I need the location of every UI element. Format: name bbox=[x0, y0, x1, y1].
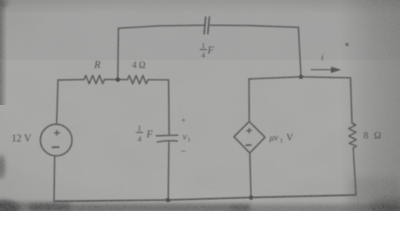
capacitor C1 right plate bbox=[208, 17, 210, 34]
wire between R and 4ohm resistor bbox=[105, 79, 128, 81]
wire from 4 ohm to middle-capacitor corner bbox=[148, 79, 169, 81]
top wire left of capacitor C1 bbox=[118, 25, 204, 28]
dependent source U1 (mu v1 V) diamond bbox=[234, 122, 265, 154]
wire 8 ohm branch lower bbox=[353, 148, 356, 195]
voltage source V1 minus sign bbox=[52, 146, 60, 148]
wire left branch lower bbox=[53, 156, 56, 201]
junction node C (middle cap meets bottom wire) bbox=[166, 198, 170, 202]
dependent source U1 minus sign bbox=[246, 144, 252, 146]
wire 8 ohm branch upper bbox=[351, 78, 353, 123]
resistor R3 (8 ohm) bbox=[349, 123, 357, 148]
bottom wire bbox=[54, 195, 356, 201]
wire vertical branch up from junction A bbox=[117, 28, 120, 79]
current arrow i shaft bbox=[312, 69, 333, 71]
capacitor C2 (1/4 F middle) top plate bbox=[156, 134, 178, 137]
current arrow i head bbox=[331, 67, 341, 73]
resistor R2 (4 ohm) bbox=[128, 76, 149, 84]
capacitor C2 bottom plate bbox=[157, 141, 177, 142]
junction node A (R / 4ohm / up-branch) bbox=[116, 78, 120, 82]
capacitor C1 (1/4 F top) left plate bbox=[204, 17, 206, 34]
resistor R1 (R) bbox=[84, 75, 105, 83]
junction node D (dep source meets bottom wire) bbox=[249, 196, 253, 200]
wire right horizontal bbox=[249, 77, 351, 79]
wire middle capacitor branch lower bbox=[167, 142, 170, 200]
wire middle capacitor branch upper bbox=[168, 80, 171, 135]
voltage source V1 (12 V) circle bbox=[40, 124, 72, 156]
wire left branch upper (source to top-left corner) bbox=[57, 80, 58, 124]
ink speck bbox=[345, 43, 348, 46]
junction node B (top loop meets right horizontal) bbox=[299, 75, 303, 79]
dependent source U1 plus sign bbox=[246, 128, 252, 133]
voltage source V1 plus sign bbox=[54, 130, 60, 136]
wire main left horizontal (top of left loop) bbox=[58, 79, 84, 81]
wire dependent source branch lower bbox=[250, 153, 251, 198]
wire dependent source branch upper bbox=[248, 79, 250, 122]
top wire right of capacitor C1 bbox=[209, 25, 299, 27]
wire right vertical of top loop bbox=[298, 27, 301, 77]
